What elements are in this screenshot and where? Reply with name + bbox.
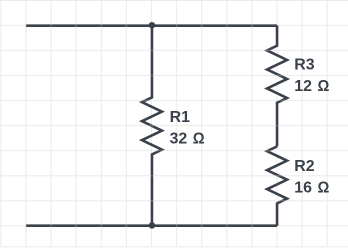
svg-text:12: 12 — [294, 78, 312, 95]
junction node top — [149, 22, 156, 29]
resistor R3 12Ω right branch upper — [267, 26, 287, 147]
svg-text:16: 16 — [294, 180, 312, 197]
svg-text:Ω: Ω — [318, 77, 330, 95]
svg-text:Ω: Ω — [318, 179, 330, 197]
svg-text:R2: R2 — [294, 158, 314, 175]
wire top horizontal — [26, 24, 277, 27]
wire bottom horizontal — [26, 224, 277, 227]
svg-text:R3: R3 — [294, 57, 314, 74]
svg-text:32: 32 — [170, 130, 188, 147]
svg-text:R1: R1 — [170, 109, 190, 126]
resistor R1 32Ω middle branch — [142, 26, 162, 226]
svg-text:Ω: Ω — [193, 130, 205, 148]
resistor R2 16Ω right branch lower — [267, 146, 287, 225]
junction node bottom — [149, 222, 156, 229]
